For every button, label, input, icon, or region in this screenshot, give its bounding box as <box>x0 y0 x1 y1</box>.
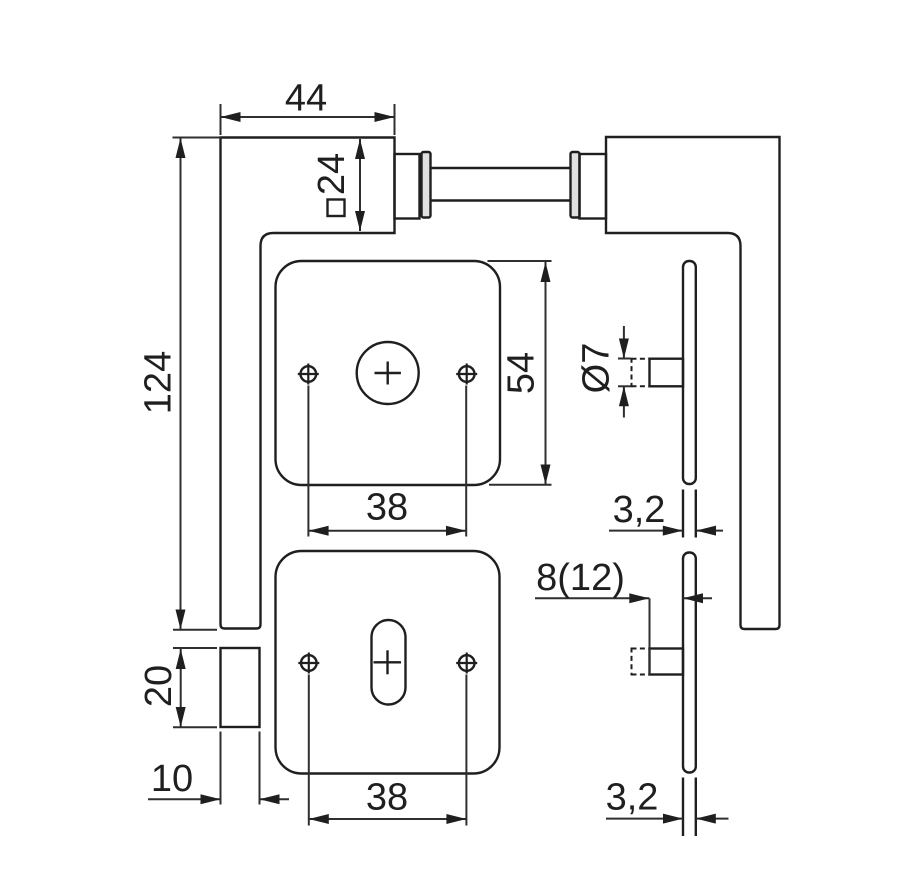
svg-text:124: 124 <box>138 351 180 414</box>
upper rosette left screw <box>298 364 319 385</box>
dim 3,2 lower lines <box>606 818 729 820</box>
upper rosette centre cross <box>375 362 401 385</box>
dim dia7 lines <box>618 326 631 418</box>
dim 38 upper lines <box>308 386 466 537</box>
label 124 <box>138 351 180 414</box>
label 54 <box>501 352 543 394</box>
svg-text:38: 38 <box>366 777 408 819</box>
dim 38 lower lines <box>309 675 467 826</box>
dim 20 lines <box>173 648 217 727</box>
lower plate section lines <box>683 778 696 837</box>
arrowheads dim dia7 <box>619 339 629 407</box>
upper stud hidden part (dashed) <box>632 358 650 388</box>
lower rosette left screw <box>298 653 319 674</box>
upper rosette side view plate <box>683 261 696 484</box>
svg-text:54: 54 <box>501 352 543 394</box>
lower rosette plate (front view) <box>276 551 500 774</box>
upper rosette plate (front view) <box>276 261 501 485</box>
lower stud hidden part (dashed) <box>632 648 650 676</box>
dim 54 lines <box>488 261 552 485</box>
lower rosette key slot <box>372 620 406 705</box>
arrowheads dim 44 <box>221 112 395 122</box>
lower fixing stud <box>650 649 684 675</box>
dim square24 line <box>359 139 361 231</box>
svg-text:20: 20 <box>138 665 180 707</box>
upper rosette spindle hole <box>357 342 419 404</box>
svg-text:3,2: 3,2 <box>606 777 659 819</box>
upper plate section lines <box>683 490 696 538</box>
svg-text:44: 44 <box>285 78 327 120</box>
arrowheads dim 3,2 upper <box>663 526 716 536</box>
dim 3,2 upper lines <box>609 530 723 532</box>
left handle (side view, head + lever) <box>221 138 395 629</box>
label 20 <box>138 665 180 707</box>
right handle (side view, head + lever) <box>606 137 780 629</box>
dim 8(12) leader lines <box>535 598 712 674</box>
arrowheads dim square24 <box>355 139 365 231</box>
dim 124 lines <box>173 138 222 630</box>
arrowheads dim 38 upper <box>309 526 466 536</box>
arrowheads dim 124 <box>176 138 186 630</box>
svg-text:8(12): 8(12) <box>536 557 625 599</box>
arrowheads dim 20 <box>176 649 186 727</box>
arrowheads dim 38 lower <box>309 814 467 824</box>
label 8(12) <box>536 557 625 599</box>
label 38 upper <box>366 487 408 529</box>
label 38 lower <box>366 777 408 819</box>
upper fixing stud <box>650 359 684 387</box>
square spindle <box>431 168 572 201</box>
dim 10 lines <box>148 732 289 805</box>
arrowheads dim 10 <box>201 794 280 804</box>
label dia7 <box>576 343 618 394</box>
svg-text:Ø7: Ø7 <box>576 343 618 394</box>
label 3,2 lower <box>606 777 659 819</box>
label square24 <box>311 153 353 216</box>
svg-text:24: 24 <box>311 153 353 195</box>
dim 44 lines <box>221 104 395 135</box>
upper rosette right screw <box>456 364 477 385</box>
arrowheads dim 3,2 lower <box>663 814 716 824</box>
right collar ring <box>571 152 580 218</box>
left collar ring <box>422 152 431 218</box>
svg-text:10: 10 <box>151 758 193 800</box>
svg-text:3,2: 3,2 <box>613 489 666 531</box>
right handle neck <box>580 154 607 219</box>
lower rosette centre cross <box>374 650 402 674</box>
arrowheads dim 54 <box>541 262 551 485</box>
lower rosette right screw <box>456 653 477 674</box>
lever end block (20 mm section) <box>221 648 260 727</box>
svg-text:38: 38 <box>366 487 408 529</box>
lower rosette side view plate <box>683 553 696 773</box>
label 44 <box>285 78 327 120</box>
label 10 <box>151 758 193 800</box>
left handle neck <box>395 154 420 219</box>
arrowheads dim 8(12) <box>629 593 703 603</box>
label 3,2 upper <box>613 489 666 531</box>
